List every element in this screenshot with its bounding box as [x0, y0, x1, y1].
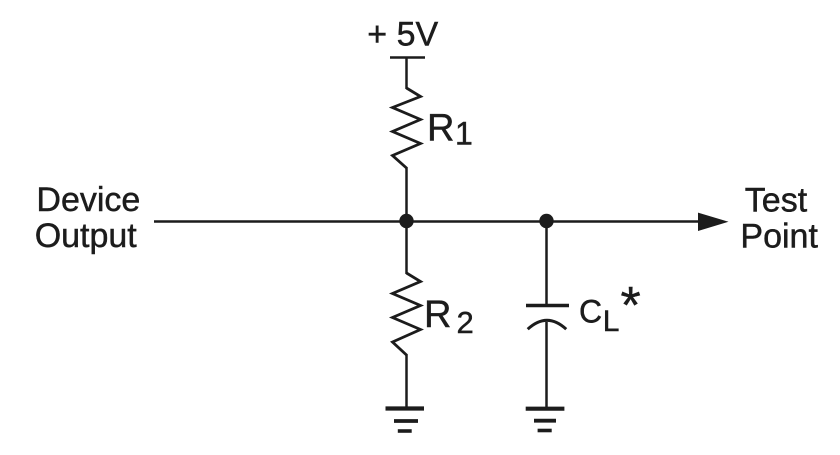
arrowhead at test point: [698, 213, 729, 231]
svg-text:*: *: [621, 277, 641, 335]
svg-text:L: L: [603, 305, 620, 338]
wire R1 to node A: [405, 167, 408, 222]
wire node B to capacitor CL: [545, 221, 548, 305]
capacitor CL top plate: [526, 304, 569, 308]
svg-text:R: R: [424, 294, 451, 336]
wire capacitor CL to ground: [545, 322, 548, 409]
node B junction dot: [539, 214, 553, 228]
power rail +5V bar: [390, 56, 425, 59]
svg-text:1: 1: [455, 116, 473, 152]
wire +5V bar to R1: [405, 58, 408, 90]
resistor R1: [393, 88, 421, 168]
wire R2 to ground: [405, 354, 408, 409]
node A junction dot: [399, 214, 413, 228]
wire node A to R2: [405, 221, 408, 274]
ground symbol below R2: [386, 406, 425, 410]
ground symbol below CL: [526, 407, 565, 411]
svg-text:R: R: [427, 108, 454, 150]
svg-text:Output: Output: [35, 217, 138, 255]
capacitor CL bottom plate (curved): [528, 320, 567, 329]
svg-text:2: 2: [457, 305, 474, 340]
svg-text:C: C: [579, 294, 602, 330]
svg-text:Test: Test: [745, 182, 808, 220]
svg-text:+ 5V: + 5V: [367, 16, 438, 54]
svg-text:Point: Point: [740, 218, 818, 256]
wire device output to test point: [154, 220, 704, 223]
svg-text:Device: Device: [36, 181, 140, 219]
resistor R2: [393, 273, 421, 355]
